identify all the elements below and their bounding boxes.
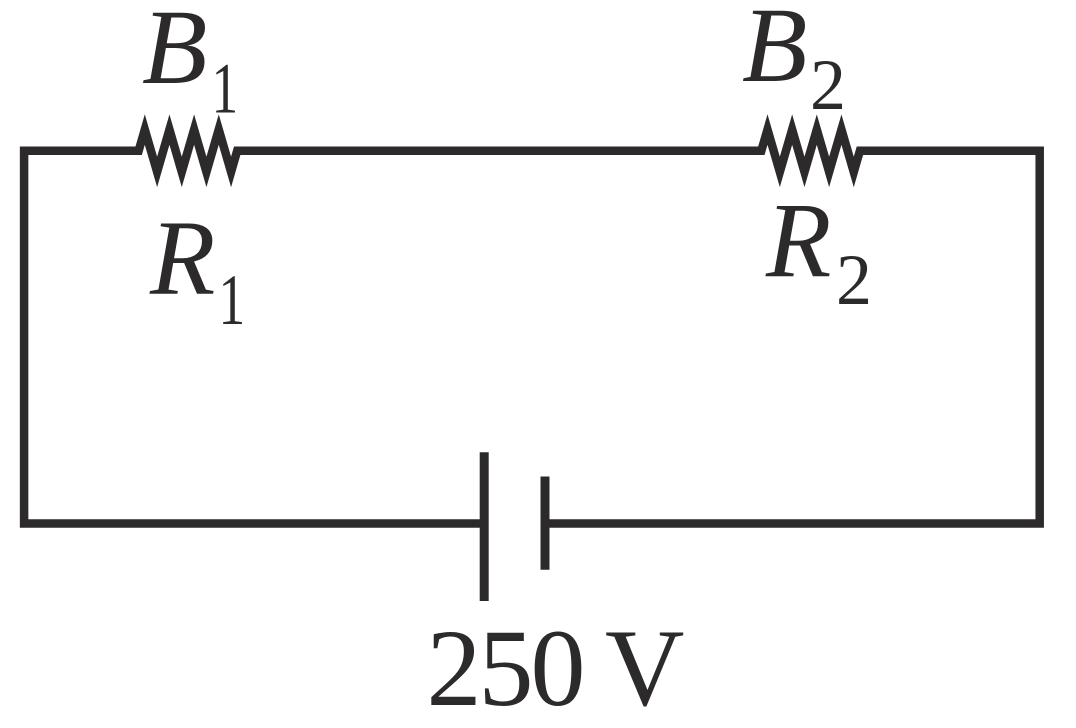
svg-text:2: 2 bbox=[836, 240, 872, 320]
svg-text:B: B bbox=[142, 0, 207, 107]
wire: top middle segment between R1 and R2 bbox=[237, 147, 761, 156]
svg-text:1: 1 bbox=[212, 49, 239, 129]
label R1 bbox=[149, 200, 245, 340]
battery V1 long plate (positive) bbox=[480, 452, 489, 601]
wire: left segment of loop (top-left, left side, bottom-left to battery) bbox=[24, 151, 484, 524]
svg-text:B: B bbox=[742, 0, 807, 105]
svg-text:R: R bbox=[765, 183, 831, 301]
svg-text:R: R bbox=[149, 200, 215, 318]
resistor R2 (lamp B2) zigzag bbox=[751, 130, 870, 172]
label R2 bbox=[765, 183, 872, 321]
svg-text:250 V: 250 V bbox=[427, 607, 685, 728]
resistor R1 (lamp B1) zigzag bbox=[128, 130, 248, 172]
label B2 bbox=[742, 0, 846, 125]
label 250 V battery value bbox=[427, 607, 685, 728]
svg-text:2: 2 bbox=[810, 45, 846, 125]
wire: right segment of loop (top-right, right side, bottom-right to battery) bbox=[545, 151, 1040, 524]
svg-text:1: 1 bbox=[219, 260, 246, 340]
battery V1 short plate (negative) bbox=[541, 477, 550, 570]
label B1 bbox=[142, 0, 238, 128]
